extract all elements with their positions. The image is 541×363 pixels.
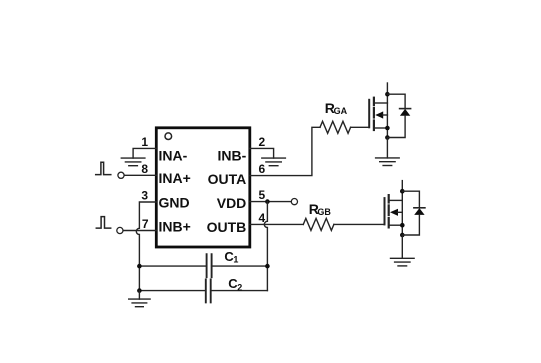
value label C2: [228, 276, 242, 292]
value label C1: [224, 249, 238, 265]
node junction dot Q2 drain: [400, 189, 405, 194]
wire pin7 INB+: [123, 230, 156, 232]
node junction dot Q1 source stub: [385, 126, 390, 131]
pulse source symbol B: [96, 217, 110, 229]
value label RGB: [309, 201, 332, 217]
svg-text:2: 2: [259, 135, 266, 149]
svg-text:VDD: VDD: [217, 195, 247, 211]
svg-text:INB-: INB-: [218, 148, 247, 164]
op-amp U1 gate-driver IC body: [156, 128, 250, 247]
diode D2 body diode of Q2: [402, 191, 425, 235]
wire VDD rail down to capacitors with hop over pin4: [264, 202, 267, 291]
node junction dot C1 left: [137, 264, 142, 269]
svg-text:8: 8: [141, 162, 148, 176]
wire pin3 GND down left rail with hop: [136, 202, 156, 291]
capacitor C1: [139, 254, 267, 277]
node terminal circle VDD supply: [291, 199, 297, 205]
svg-text:INB+: INB+: [159, 219, 191, 235]
pulse source symbol A: [96, 162, 111, 174]
ground at pin 1: [121, 158, 145, 166]
node junction dot C2 left: [137, 288, 142, 293]
wire RGA to Q1 gate: [351, 126, 370, 128]
wire pin2 INB- to ground: [250, 148, 274, 158]
transistor Q2 MOSFET: [385, 191, 403, 235]
wire pin6 OUTA up to gate resistor: [250, 127, 320, 175]
node junction dot VDD: [265, 199, 270, 204]
node junction dot Q2 source stub: [400, 223, 405, 228]
capacitor C2: [139, 279, 267, 302]
node terminal circle INB+ input: [117, 227, 123, 233]
svg-text:1: 1: [233, 254, 238, 264]
wire Q2 drain lead up: [401, 181, 403, 192]
svg-text:2: 2: [237, 282, 242, 292]
wire pin4 OUTB to gate resistor: [250, 223, 303, 225]
wire RGB to Q2 gate: [334, 223, 385, 225]
ground at pin 2: [262, 158, 286, 166]
svg-text:4: 4: [259, 211, 266, 225]
node junction dot Q1 drain: [385, 92, 390, 97]
value label RGA: [325, 100, 348, 116]
transistor Q1 MOSFET: [369, 94, 387, 137]
svg-text:7: 7: [142, 217, 149, 231]
svg-text:1: 1: [141, 135, 148, 149]
pin-1 indicator circle: [165, 133, 172, 140]
node junction dot Q2 source bottom: [400, 233, 405, 238]
svg-text:GA: GA: [334, 106, 348, 116]
resistor RGA: [320, 121, 351, 133]
svg-text:OUTB: OUTB: [207, 219, 247, 235]
svg-text:INA+: INA+: [159, 170, 191, 186]
diode D1 body diode of Q1: [387, 94, 410, 137]
svg-text:6: 6: [259, 162, 266, 176]
wire pin1 INA- to ground: [133, 148, 156, 158]
svg-text:5: 5: [259, 188, 266, 202]
node terminal circle INA+ input: [118, 172, 124, 178]
node junction dot C1 right: [265, 264, 270, 269]
svg-text:INA-: INA-: [159, 148, 188, 164]
ground at Q2 source: [391, 235, 415, 266]
wire Q1 drain lead up: [386, 83, 388, 94]
wire pin5 VDD to supply terminal: [250, 201, 292, 203]
wire pin8 INA+: [124, 174, 156, 176]
ground at bottom left rail: [129, 291, 150, 307]
IC pin name labels: [159, 148, 247, 236]
svg-text:GND: GND: [159, 195, 190, 211]
svg-text:GB: GB: [317, 207, 331, 217]
resistor RGB: [303, 218, 334, 230]
ground at Q1 source: [376, 138, 400, 166]
node junction dot Q1 source bottom: [385, 135, 390, 140]
svg-text:OUTA: OUTA: [208, 171, 247, 187]
svg-text:3: 3: [141, 189, 148, 203]
